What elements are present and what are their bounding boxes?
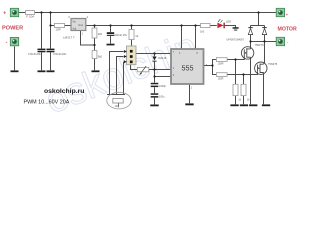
diode D1 UF4007 bbox=[248, 26, 252, 29]
ground under Rb bbox=[92, 70, 100, 72]
svg-text:10R: 10R bbox=[56, 28, 61, 32]
connector pot 3pin bbox=[124, 46, 136, 65]
wire M1 source bbox=[250, 58, 252, 104]
ground M1 source bbox=[249, 104, 257, 106]
node 10R tap bbox=[49, 24, 51, 26]
wire diode tee bbox=[251, 13, 265, 26]
wire R3 leads bbox=[131, 26, 133, 47]
node rail diodes bbox=[257, 11, 259, 13]
svg-text:75NF75: 75NF75 bbox=[268, 62, 278, 66]
wire bus pin6 bbox=[155, 70, 172, 77]
wire 10R branch bbox=[51, 25, 55, 27]
resistor Rled bbox=[201, 23, 211, 27]
wire drain line bbox=[251, 41, 277, 43]
resistor 10R bbox=[55, 23, 65, 27]
node gate1 bbox=[234, 58, 236, 60]
LED D4 bbox=[217, 23, 223, 29]
capacitor C2 470mF bbox=[47, 49, 55, 51]
wire LED anode bbox=[210, 25, 217, 27]
wire pin3 out bbox=[204, 65, 213, 67]
ground R5 bbox=[240, 104, 248, 106]
svg-text:1k: 1k bbox=[238, 99, 241, 102]
terminal X1 plus bbox=[10, 8, 18, 16]
node drain D1 bbox=[249, 40, 251, 42]
wire gate2 branch bbox=[213, 66, 217, 75]
capacitor C5 100n bbox=[151, 93, 159, 95]
ground under X2 bbox=[11, 70, 19, 72]
wire M1 drain bbox=[250, 42, 252, 48]
transistor Q2 75NF75 bbox=[255, 62, 267, 74]
svg-text:2: 2 bbox=[87, 15, 89, 19]
svg-text:555: 555 bbox=[182, 63, 194, 72]
wire D3 leads bbox=[154, 54, 156, 70]
resistor Rg1 100R bbox=[216, 58, 227, 62]
wire LED cathode to ground bbox=[225, 26, 236, 29]
ground under bus bbox=[150, 105, 158, 107]
wire M2 drain bbox=[264, 42, 266, 64]
terminal X4 motor minus bbox=[276, 37, 284, 45]
node gate2 bbox=[242, 73, 244, 75]
wire M2 source bbox=[263, 74, 265, 105]
svg-text:UF4007/1N4007: UF4007/1N4007 bbox=[227, 38, 245, 41]
wire minus terminal to ground bbox=[14, 46, 16, 70]
svg-text:75NF75: 75NF75 bbox=[255, 43, 265, 47]
wire pot wire C bbox=[123, 62, 125, 95]
ground LED bbox=[233, 27, 239, 29]
wire top rail bbox=[19, 12, 276, 14]
fuse F1 bbox=[26, 11, 35, 15]
ground R4 bbox=[230, 104, 238, 106]
wire pin7 row bbox=[136, 53, 171, 55]
node pin3 bbox=[211, 64, 213, 66]
wire LM317 adj bbox=[81, 31, 95, 46]
svg-text:100R: 100R bbox=[218, 78, 224, 81]
resistor Rb 3k0 bbox=[92, 51, 97, 59]
wire trimmer to bus bbox=[149, 69, 171, 71]
svg-text:3k0: 3k0 bbox=[98, 55, 103, 59]
wire cap1 drop bbox=[41, 13, 43, 49]
wire bus to caps bbox=[154, 77, 156, 105]
svg-text:470mFx63v: 470mFx63v bbox=[28, 52, 42, 56]
node 9V C3 bbox=[109, 24, 111, 26]
node 9V pin4 bbox=[180, 24, 182, 26]
capacitor C3 220mF bbox=[107, 32, 114, 34]
svg-text:LM317 T: LM317 T bbox=[63, 36, 75, 40]
wire rail2 9V bbox=[86, 25, 201, 27]
terminal X3 motor plus bbox=[276, 8, 284, 16]
wire gate2 to mosfet bbox=[227, 72, 257, 75]
wire Ra leads bbox=[94, 26, 96, 51]
svg-text:-: - bbox=[6, 39, 8, 45]
svg-text:1k: 1k bbox=[247, 99, 250, 102]
svg-text:Vout: Vout bbox=[78, 24, 83, 27]
terminal X2 minus bbox=[10, 37, 18, 45]
svg-text:oskolchip.ru: oskolchip.ru bbox=[44, 88, 84, 95]
ground under 555 bbox=[185, 103, 193, 105]
wire pot wire B bbox=[117, 57, 124, 95]
wire Rb lead to ground bbox=[94, 59, 96, 71]
wire 555 pin8 stub bbox=[195, 26, 197, 50]
resistor R4 pulldown bbox=[233, 84, 238, 95]
svg-text:MOTOR: MOTOR bbox=[278, 27, 297, 33]
svg-text:3: 3 bbox=[68, 15, 70, 19]
svg-text:1k0: 1k0 bbox=[115, 105, 120, 108]
wire D1 leads bbox=[250, 26, 252, 42]
wire pot bottom chord bbox=[107, 94, 125, 96]
wire pot wire A bbox=[110, 52, 124, 95]
svg-text:1k: 1k bbox=[135, 34, 139, 38]
svg-text:Adj: Adj bbox=[73, 27, 77, 30]
svg-text:POWER: POWER bbox=[2, 26, 23, 32]
svg-text:+: + bbox=[3, 10, 6, 16]
diode D2 UF4007 bbox=[262, 26, 266, 29]
svg-text:F 10A: F 10A bbox=[26, 15, 34, 19]
node pin2 bbox=[153, 68, 155, 70]
wire 10R to LM317 bbox=[65, 25, 72, 27]
svg-text:LED: LED bbox=[226, 19, 231, 23]
trimmer resistor bbox=[137, 67, 149, 71]
node adj junction bbox=[93, 44, 95, 46]
svg-text:470mFx63v: 470mFx63v bbox=[53, 52, 67, 56]
node rail C1 bbox=[40, 11, 42, 13]
svg-text:220mF 25v: 220mF 25v bbox=[114, 33, 128, 37]
node drain D2 bbox=[263, 40, 265, 42]
watermark bbox=[40, 25, 203, 122]
svg-text:100n: 100n bbox=[159, 96, 165, 99]
transistor Q1 75NF75 bbox=[241, 47, 253, 59]
svg-text:1: 1 bbox=[191, 87, 193, 90]
svg-text:100R: 100R bbox=[218, 63, 224, 66]
resistor Rg2 100R bbox=[216, 73, 227, 77]
node 9V pin8 bbox=[194, 24, 196, 26]
node rail C2 bbox=[49, 11, 51, 13]
wire cap2 drop bbox=[50, 13, 52, 49]
wire pot bottom lead to trimmer bbox=[131, 65, 138, 70]
wire pulldown R5 bbox=[243, 75, 245, 105]
wire pulldown R4 bbox=[235, 60, 237, 105]
svg-text:-: - bbox=[287, 40, 289, 45]
regulator U2 LM317 bbox=[68, 15, 88, 36]
node 9V R3 bbox=[130, 24, 132, 26]
capacitor C1 470mF bbox=[38, 49, 46, 51]
pot dial P1 bbox=[107, 92, 131, 109]
wire 555 pin1 bbox=[189, 84, 191, 103]
wire gate1 branch bbox=[213, 60, 217, 66]
svg-text:1N4148: 1N4148 bbox=[158, 57, 167, 60]
wire 555 pin4 stub bbox=[181, 26, 183, 50]
timer U1 555 bbox=[171, 49, 208, 90]
wire D2 leads bbox=[264, 26, 266, 42]
wire cap220 leads bbox=[110, 26, 112, 44]
svg-text:1000p: 1000p bbox=[159, 85, 167, 88]
ground M2 source bbox=[262, 104, 270, 106]
svg-text:1: 1 bbox=[82, 32, 84, 36]
svg-text:1k5: 1k5 bbox=[98, 32, 103, 36]
node pin6 bbox=[153, 75, 155, 77]
svg-text:1k0: 1k0 bbox=[200, 30, 205, 34]
diode D3 1N4148 bbox=[152, 57, 156, 61]
wire gate1 to mosfet bbox=[227, 57, 244, 60]
resistor Ra 1k0 bbox=[92, 28, 97, 38]
node pin7 bbox=[153, 52, 155, 54]
capacitor C4 1000p bbox=[151, 83, 159, 85]
svg-text:PWM 10...60V 20A: PWM 10...60V 20A bbox=[24, 100, 70, 106]
node 9V Ra bbox=[93, 24, 95, 26]
svg-text:+: + bbox=[286, 13, 289, 17]
resistor R3 1k0 bbox=[129, 30, 134, 40]
resistor R5 pulldown bbox=[241, 84, 246, 95]
